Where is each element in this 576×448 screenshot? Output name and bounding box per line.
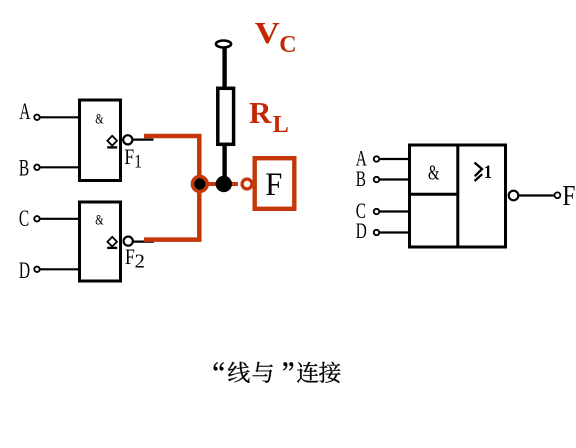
svg-text:R: R [249,95,272,130]
power terminal VC [216,41,231,48]
and-or-invert gate U3 body [410,145,506,247]
wire stub F1 [133,139,154,141]
svg-text:D: D [19,258,30,284]
svg-text:F: F [124,145,134,169]
red wire F2 to junction [144,184,202,242]
input terminal B [34,165,39,170]
red wire F1 to junction [144,134,202,184]
open-collector symbol U2 [107,237,117,248]
input terminal C [34,216,39,221]
svg-text:C: C [19,206,29,232]
wire A to U1 [40,116,79,118]
wire D to U2 [40,268,79,270]
svg-text:D: D [356,219,367,244]
output bubble node F [242,179,252,189]
output bubble U3 [509,191,519,201]
svg-text:F: F [125,245,135,269]
resistor RL body [218,88,234,144]
junction dot resistor node [216,176,232,192]
input terminal A [34,115,39,120]
svg-text:&: & [95,211,103,228]
output terminal F right [555,192,561,198]
open-collector symbol U1 [107,136,117,148]
nand gate U2 body [80,202,121,281]
input terminal D right [374,230,379,235]
label >=1 U3 [475,163,483,182]
svg-text:B: B [356,167,366,192]
svg-text:L: L [273,112,289,138]
svg-text:F: F [563,179,576,211]
svg-text:V: V [255,17,280,51]
node F box [255,158,295,209]
output bubble U2 [124,237,133,246]
output bubble U1 [123,135,132,144]
wire D to U3 [380,231,410,233]
label RL [249,95,289,138]
gate U3 vertical divider [456,145,459,247]
input terminal A right [374,156,379,161]
wire U3 to terminal F [519,194,555,196]
red wire junction to output bubble [199,182,238,186]
wire B to U1 [40,166,79,168]
svg-text:2: 2 [135,251,145,273]
junction dot wired-AND node [192,177,207,192]
wire B to U3 [380,178,410,180]
wire VC to resistor [222,47,226,88]
svg-text:1: 1 [134,151,142,172]
nand gate U1 body [80,100,121,181]
wire stub F2 [133,241,154,243]
wire C to U2 [40,218,79,220]
svg-text:&: & [428,161,439,184]
wire resistor to node [222,146,226,184]
label VC [255,17,297,58]
svg-text:C: C [279,32,296,58]
input terminal B right [374,177,379,182]
label F2 [125,245,145,272]
input terminal C right [374,209,379,214]
caption wired-AND connection [214,362,341,383]
svg-text:F: F [265,166,282,202]
svg-text:B: B [19,155,29,181]
svg-text:1: 1 [484,161,492,183]
input terminal D [34,267,39,272]
gate U3 horizontal divider [410,193,458,196]
svg-text:A: A [19,99,31,125]
label F1 [124,145,141,171]
svg-text:&: & [95,110,103,127]
wire A to U3 [380,158,410,160]
wire C to U3 [380,210,410,212]
